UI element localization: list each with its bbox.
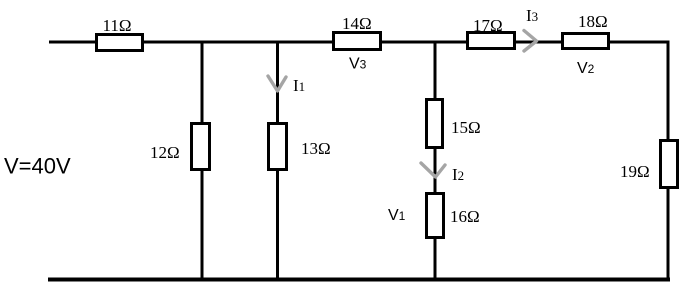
svg-text:V2: V2	[577, 60, 595, 77]
svg-text:I3: I3	[526, 6, 538, 25]
svg-text:13Ω: 13Ω	[301, 139, 331, 158]
resistor R14 14ohm	[334, 33, 381, 50]
current arrow I2	[421, 163, 445, 177]
svg-text:19Ω: 19Ω	[620, 162, 650, 181]
wire R13 bottom leg	[276, 170, 279, 281]
svg-text:15Ω: 15Ω	[451, 118, 481, 137]
resistor R17 17ohm	[468, 33, 515, 49]
wire top segment C (R14 to R17)	[381, 41, 467, 44]
resistor R12 12ohm	[192, 124, 210, 170]
wire R16 bottom leg	[434, 238, 437, 281]
svg-text:12Ω: 12Ω	[150, 143, 180, 162]
node tap wire down to R12	[201, 42, 204, 123]
svg-text:16Ω: 16Ω	[450, 207, 480, 226]
svg-text:17Ω: 17Ω	[473, 16, 503, 35]
svg-text:I1: I1	[293, 76, 305, 95]
resistor R11 11ohm	[97, 35, 143, 51]
svg-text:14Ω: 14Ω	[342, 14, 372, 33]
wire top segment B (R11 to R14)	[143, 41, 333, 44]
wire bottom rail	[48, 278, 670, 282]
wire top segment D (R17 to R18)	[515, 41, 562, 44]
resistor R15 15ohm	[427, 100, 443, 148]
resistor R18 18ohm	[563, 34, 609, 49]
wire top segment E (R18 to right corner)	[609, 41, 670, 44]
resistor R13 13ohm	[269, 124, 287, 170]
svg-text:I2: I2	[452, 165, 464, 184]
current arrow I1	[268, 76, 286, 91]
wire R15 to R16	[434, 148, 437, 193]
node tap wire down to R13	[276, 42, 279, 123]
wire right vertical bottom (R19 to bottom corner)	[667, 187, 670, 282]
svg-text:V=40V: V=40V	[4, 154, 71, 179]
resistor R16 16ohm	[427, 194, 444, 238]
wire R12 bottom leg	[201, 170, 204, 281]
svg-text:11Ω: 11Ω	[103, 16, 132, 35]
svg-text:V3: V3	[349, 56, 367, 73]
svg-text:18Ω: 18Ω	[578, 12, 608, 31]
current arrow I3	[524, 31, 537, 52]
resistor R19 19ohm	[661, 141, 678, 188]
node tap wire down to R15	[434, 42, 437, 100]
wire top segment A (source to R11)	[49, 41, 96, 44]
svg-text:V1: V1	[388, 207, 406, 224]
wire right vertical top (corner to R19)	[667, 41, 670, 142]
